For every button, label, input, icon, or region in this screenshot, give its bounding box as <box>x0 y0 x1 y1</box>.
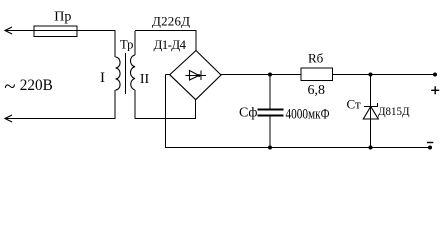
diode D1 cathode bar <box>200 71 202 81</box>
svg-text:Д226Д: Д226Д <box>152 14 190 29</box>
wire: secondary top rail to bridge <box>135 30 197 32</box>
svg-text:6,8: 6,8 <box>308 83 326 98</box>
svg-text:Пр: Пр <box>54 10 71 25</box>
junction dot: zener bottom <box>369 146 373 150</box>
svg-text:4000мкФ: 4000мкФ <box>286 107 330 123</box>
plus sign <box>431 86 439 94</box>
svg-text:II: II <box>140 72 150 87</box>
svg-text:Rб: Rб <box>308 51 324 66</box>
wire: bridge bottom corner drop <box>195 100 197 120</box>
svg-text:Д815Д: Д815Д <box>378 104 410 118</box>
node: AC input arrow top <box>5 27 12 34</box>
wire: bottom output rail <box>166 147 431 149</box>
wire: bridge left corner vertical drop <box>165 75 167 149</box>
capacitor C filter bottom wire <box>269 116 271 149</box>
wire: primary loop right vertical bottom <box>114 90 116 119</box>
terminal dot: plus output <box>433 73 437 77</box>
diode D1 horizontal lead inside bridge <box>186 75 207 77</box>
transformer T1 core <box>125 53 127 94</box>
fuse Пр body <box>34 26 77 37</box>
zener diode VD triangle <box>363 107 378 120</box>
svg-text:Ст: Ст <box>347 97 361 112</box>
capacitor C filter bottom plate <box>258 115 284 117</box>
wire: primary top rail <box>5 30 116 32</box>
zener diode VD wire <box>370 75 372 149</box>
wire: primary loop right vertical top <box>114 31 116 58</box>
capacitor C filter top plate <box>258 109 284 111</box>
svg-text:Тр: Тр <box>120 38 133 52</box>
svg-text:Сф: Сф <box>239 106 257 121</box>
wire: secondary winding vertical bottom <box>134 90 136 119</box>
terminal dot: minus output <box>428 146 432 150</box>
diode D1 triangle <box>190 71 200 81</box>
wire: secondary bottom rail to bridge <box>135 118 196 120</box>
resistor R6 body <box>301 68 333 81</box>
wire: secondary winding vertical top <box>134 31 136 55</box>
wire: bridge left corner stub <box>166 74 170 76</box>
transformer T1 winding II <box>130 55 135 90</box>
wire: primary bottom rail <box>5 118 116 120</box>
node: AC input arrow bottom <box>5 115 12 122</box>
svg-text:Д1-Д4: Д1-Д4 <box>154 37 187 52</box>
zener diode VD cathode hook <box>377 103 379 107</box>
junction dot: zener top <box>369 73 373 77</box>
bridge rectifier D1-D4 diamond <box>170 51 221 100</box>
wire: bridge top corner drop <box>195 31 197 51</box>
svg-text:~: ~ <box>4 74 15 98</box>
zener diode VD cathode bar <box>364 106 378 108</box>
wire: top output rail <box>221 74 435 76</box>
capacitor C filter top wire <box>269 75 271 110</box>
transformer T1 winding I <box>116 57 121 90</box>
diode D1 apex dot <box>198 74 201 77</box>
minus sign <box>427 142 433 144</box>
svg-text:220В: 220В <box>20 77 53 94</box>
svg-text:I: I <box>100 70 105 86</box>
junction dot: cap top <box>268 73 272 77</box>
junction dot: cap bottom <box>268 146 272 150</box>
